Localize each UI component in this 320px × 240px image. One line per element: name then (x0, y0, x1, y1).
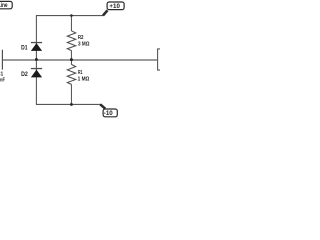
wire R1 to bottom rail (70, 84, 72, 104)
component box at right edge (clipped) (158, 49, 160, 70)
resistor R2 zigzag (67, 31, 75, 51)
flag box "Line" (clipped at left edge) (0, 1, 12, 9)
flag box -10 (103, 109, 117, 117)
capacitor C1 plate (clipped at left edge) (1, 50, 3, 70)
svg-text:3 MΩ: 3 MΩ (78, 41, 90, 47)
junction dot: top rail / resistor column (70, 14, 73, 17)
resistor R1 zigzag (67, 64, 75, 84)
svg-text:Line: Line (0, 2, 8, 9)
junction dot: mid net / diode column (35, 58, 38, 61)
wire: bottom rail (36, 103, 101, 105)
diode D2 (triangle) (31, 70, 42, 78)
wire R2 to mid (70, 50, 72, 60)
svg-text:D2: D2 (21, 72, 28, 78)
diode D1 (cathode bar) (31, 42, 42, 44)
diode D2 (cathode bar) (31, 68, 42, 70)
svg-text:1nF: 1nF (0, 78, 5, 84)
svg-text:C1: C1 (0, 71, 4, 77)
svg-text:D1: D1 (21, 46, 28, 52)
junction dot: mid net / resistor column (70, 58, 73, 61)
diode D1 (triangle) (31, 43, 42, 51)
svg-text:-10: -10 (104, 110, 114, 117)
wedge wire to +10 flag (103, 10, 108, 15)
svg-text:1 MΩ: 1 MΩ (78, 76, 90, 82)
svg-text:R2: R2 (78, 35, 84, 41)
wire: diode column (35, 16, 37, 105)
wedge wire to -10 flag (100, 104, 105, 108)
junction dot: bottom rail / resistor column (70, 103, 73, 106)
wire mid to R1 (70, 60, 72, 65)
wire: top rail (36, 15, 104, 17)
flag box +10 (107, 2, 124, 10)
svg-text:+10: +10 (109, 3, 120, 10)
wire: mid gray net (3, 59, 158, 61)
svg-text:R1: R1 (78, 70, 83, 76)
resistor column top stub (70, 16, 72, 31)
